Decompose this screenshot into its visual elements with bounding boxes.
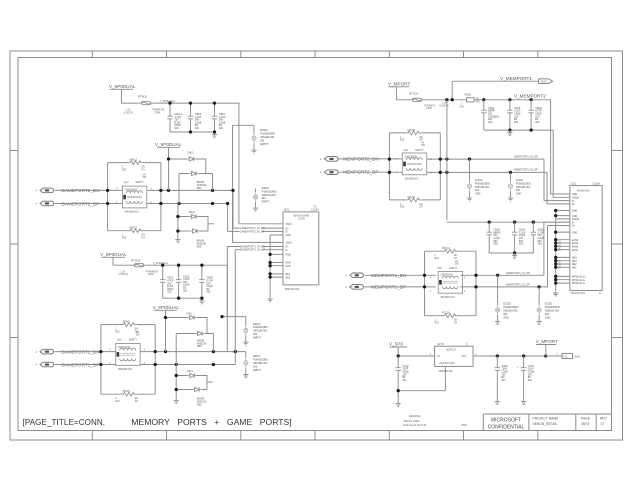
svg-text:40Q: 40Q [493,243,498,246]
wire: DN signal (memport1) [364,222,570,275]
wire: D9V1 anode/cathode routing [176,365,213,399]
svg-text:923: 923 [195,127,200,130]
input port GAMEPORT2_DN [40,188,54,193]
svg-text:6901882-001: 6901882-001 [405,177,420,180]
junction dots connector bus [554,209,557,212]
capacitor C7Q2 [397,356,399,364]
svg-text:CONN: CONN [298,218,305,221]
svg-text:40Q: 40Q [538,243,543,246]
svg-text:MEMPORT2_IN_DP: MEMPORT2_IN_DP [514,168,538,172]
svg-text:GND: GND [572,231,578,234]
junction dots gameport1 [99,350,102,353]
svg-text:LQU: LQU [117,339,122,342]
border zone ticks left [10,151,18,338]
svg-text:V_5P0DUAL: V_5P0DUAL [155,142,182,147]
svg-text:923: 923 [167,291,172,294]
wire: V_MPORT drop through block [446,100,448,220]
ground (cap rail) [212,132,217,138]
svg-text:XENON_RETAIL: XENON_RETAIL [533,422,558,426]
junction dots gameport2 [106,189,109,192]
wire: rail after ferrite [474,99,551,101]
svg-text:R22: R22 [435,257,440,260]
svg-text:923: 923 [183,289,188,292]
wire: stub down [102,257,126,265]
svg-text:EMPTY: EMPTY [136,181,145,184]
ground (C7Q2) [396,401,401,407]
title block: page [581,417,591,427]
wire: DP signal (memport2) [338,172,570,204]
svg-text:MEMORY PORTS + GAME PORTS]: MEMORY PORTS + GAME PORTS] [131,417,291,427]
off-page flag V_MEMPORT1 [539,79,553,84]
svg-text:V_5P0: V_5P0 [389,342,403,347]
off-page reference box [562,353,573,358]
svg-text:EAR: EAR [286,265,291,268]
junction dots on rail [482,98,485,101]
capacitor C9Q2 [176,276,181,285]
svg-text:D8G1: D8G1 [189,211,196,214]
svg-text:N: N [599,292,601,295]
svg-text:GND: GND [286,234,292,237]
svg-text:J8G1: J8G1 [284,209,290,212]
svg-text:R22: R22 [400,139,405,142]
capacitor C8Q8 [528,107,533,116]
svg-text:F8Q01: F8Q01 [464,94,472,97]
svg-text:CM02K8X8: CM02K8X8 [405,155,418,158]
svg-text:MTQ8+N-1+: MTQ8+N-1+ [572,282,586,285]
svg-text:40Q: 40Q [488,121,493,124]
svg-text:RT2Q1: RT2Q1 [409,91,419,95]
svg-text:ADJUST/GND: ADJUST/GND [439,362,455,365]
wire: cap rail to connector [447,221,556,223]
wire: loop rectangle (memport2) [389,133,440,200]
wire: DN signal [55,189,233,191]
svg-text:[PAGE_TITLE=CONN,: [PAGE_TITLE=CONN, [23,418,106,427]
ground (gameport1 caps) [199,298,204,304]
ESD suppressor E09V2 [222,317,246,326]
junction dots [161,264,164,267]
svg-text:D-: D- [286,231,289,234]
title block box lines [483,414,611,431]
svg-text:D9V2: D9V2 [187,312,194,315]
svg-text:MEMPORT1_IN_DN: MEMPORT1_IN_DN [506,271,530,275]
svg-text:GND: GND [545,316,551,319]
border zone ticks bottom [92,431,538,441]
svg-text:V_5P0DUAL: V_5P0DUAL [109,84,136,89]
wire: connector gnd bus [555,211,557,291]
svg-text:V_MEMPORT1: V_MEMPORT1 [500,76,532,81]
svg-text:2.5A: 2.5A [459,105,464,108]
svg-text:6901882-001: 6901882-001 [118,368,133,371]
capacitor C9U1 [160,276,165,285]
svg-text:R22: R22 [435,322,440,325]
svg-text:923: 923 [535,121,540,124]
ESD suppressor E1Q52 [497,275,499,305]
svg-text:45/73: 45/73 [581,422,589,426]
wire: ground bus of connector [269,235,271,297]
junction dots memport1 [423,274,426,277]
wire: D8K2 cathode routing [179,159,213,204]
junction dots bottom rail [189,130,192,133]
svg-text:EMPTY: EMPTY [253,336,262,339]
wire: connector pin stubs group2 [233,242,284,254]
wire: gameport1 DP riser to net label [235,250,241,365]
wire: V_MEMPORT2 drop to connector [551,100,570,194]
svg-text:45/A3: 45/A3 [574,355,581,358]
net label GAMEPORT1_IN_DN [240,244,262,247]
capacitor C8U1A [167,113,172,122]
svg-text:V_MPORT: V_MPORT [536,339,558,344]
wire: V_MPORT stub down [389,87,410,100]
svg-text:2005: 2005 [461,424,467,427]
wire: V_MPORT stub [536,345,556,357]
sheet outer border frame [10,51,623,440]
svg-text:J1Q1: J1Q1 [571,182,577,185]
capacitor C8Q4 [481,107,486,116]
svg-text:0.2/DCR: 0.2/DCR [439,104,448,107]
svg-text:Wed Aug 24 09:27:33: Wed Aug 24 09:27:33 [403,424,427,427]
wire: loop rectangle (gameport1) [101,325,155,395]
svg-text:V_5P0DUAL: V_5P0DUAL [153,305,180,310]
wire: loop rectangle (memport1) [425,251,477,316]
svg-text:45/A7: 45/A7 [541,80,548,83]
ground (memport caps) [507,130,512,136]
input port MEMPORT1_DP [350,285,364,290]
wire: rail drop to game connector power [238,103,240,224]
junction dots top rail [168,101,171,104]
svg-text:0.2/DCR: 0.2/DCR [124,111,133,114]
input port GAMEPORT1_DP [40,362,54,367]
svg-text:XENON_FABA: XENON_FABA [403,420,419,423]
svg-text:923: 923 [206,291,211,294]
svg-text:EAN2+N2: EAN2+N2 [559,240,562,251]
junction dots memport2 [388,157,391,160]
svg-text:D8S: D8S [197,245,202,248]
svg-text:NCP1117: NCP1117 [446,349,457,352]
ground (C1F8) [495,399,500,405]
svg-text:LQU: LQU [123,181,128,184]
wire: D8G1 anode/cathode routing [178,204,214,238]
svg-text:R22: R22 [122,168,127,171]
wire: connector stub pins [556,211,570,284]
title block: drawing info [403,415,467,427]
svg-text:1"Q: 1"Q [563,355,567,358]
capacitor C8Q2 (mid3) [531,229,536,238]
wire: cap top connections [170,103,215,113]
wire: stub down from V_5P0DUAL [157,147,180,159]
wire: DP signal (gameport1) [55,364,236,366]
title block: microsoft confidential [488,417,525,430]
wire: V rail to ferrite [396,99,466,101]
capacitor C5Q8 (mid1) [487,229,492,238]
svg-text:D-: D- [286,249,289,252]
svg-text:EMPTY: EMPTY [416,149,425,152]
svg-text:DRAWING: DRAWING [409,415,421,418]
capacitor C4V8 [507,107,512,116]
ESD suppressor E09V1 [244,358,248,367]
svg-text:U1T3: U1T3 [437,342,444,346]
wire: cap leads + bottom rail [484,100,551,130]
svg-text:120R: 120R [148,273,154,276]
svg-text:R22: R22 [115,330,120,333]
svg-text:GAMEPORT1_IN_DP: GAMEPORT1_IN_DP [240,248,265,252]
svg-text:LQU: LQU [437,267,442,270]
svg-text:EMPTY: EMPTY [260,143,269,146]
wire: V_5P0DUAL stub down [110,89,134,103]
svg-text:923: 923 [528,379,533,382]
ESD suppressor E1Q51 [538,287,540,305]
ESD suppressor E09G2 [252,134,256,143]
svg-text:6901882-001: 6901882-001 [441,296,456,299]
svg-text:RE2: RE2 [286,276,291,279]
svg-text:EMPTY: EMPTY [449,267,458,270]
svg-text:6950096-001: 6950096-001 [439,370,454,373]
svg-text:D8S: D8S [197,345,202,348]
wire: D9V2 cathode routing [176,318,213,365]
ground (connector) [268,297,273,303]
svg-text:V5U8: V5U8 [286,223,293,226]
wire: C7Q2 to gnd + adj return [398,366,445,401]
wire: DP drop to net label [228,204,241,232]
wire: DP signal [55,203,228,205]
svg-text:C1Q64: C1Q64 [311,209,319,212]
wire: gameport1 DN riser to net label [227,247,241,352]
svg-text:CM02K9X8: CM02K9X8 [440,274,453,277]
svg-text:923: 923 [514,121,519,124]
svg-text:OUT: OUT [462,355,468,358]
svg-text:GAMEPORT2_IN_DN: GAMEPORT2_IN_DN [240,226,265,230]
wire: +5V rail (gameport1) [113,265,227,316]
wire: cap bottom rail [170,122,215,132]
svg-text:GND: GND [286,254,292,257]
svg-text:PROJECT NAME: PROJECT NAME [533,417,560,421]
svg-text:GND: GND [572,210,578,213]
ESD suppressor E09G1 [253,192,257,201]
input port GAMEPORT1_DN [40,349,54,354]
svg-text:923: 923 [219,127,224,130]
svg-text:GND: GND [475,193,481,196]
net label GAMEPORT2_IN_DN [239,226,261,229]
ground (D9V1) [174,398,179,404]
wire: connector pin stubs ear/ret [270,263,283,278]
svg-text:EMPTY: EMPTY [129,339,138,342]
svg-text:17: 17 [601,422,605,426]
border zone ticks top [92,51,538,58]
svg-text:T29R: T29R [154,111,160,114]
svg-text:D8S: D8S [197,403,202,406]
svg-text:CM01K9X8: CM01K9X8 [118,346,131,349]
wire: DN signal (gameport1) [55,352,246,358]
svg-text:V5U8: V5U8 [286,242,293,245]
wire: regulator output rail [473,355,546,357]
svg-text:120R: 120R [426,107,432,110]
input port GAMEPORT2_DP [40,201,54,206]
title block: project name [533,417,560,427]
svg-text:6950U04-003: 6950U04-003 [285,288,300,291]
sheet inner border frame [18,58,612,431]
svg-text:923: 923 [175,127,180,130]
ground (D8G1) [175,237,180,243]
capacitor C8U2 [188,113,193,122]
svg-text:903: 903 [476,100,481,103]
ground (mid caps) [512,253,517,259]
svg-text:EAN1: EAN1 [572,249,579,252]
svg-text:IN: IN [437,355,440,358]
net label GAMEPORT2_IN_DP [239,230,261,233]
svg-text:GND: GND [503,316,509,319]
svg-text:V_MEMPORT2: V_MEMPORT2 [514,93,546,98]
capacitor C9Q4 [199,276,204,285]
wire: second power drop with E09G2 tap [233,125,255,242]
svg-text:R22: R22 [122,237,127,240]
ground (mu connector) [553,290,558,296]
svg-text:XENON MU: XENON MU [577,189,590,192]
wire: riser to V_MEMPORT1 flag [452,81,538,100]
svg-text:REV: REV [600,417,608,421]
wire: DN drop to net label [233,190,241,228]
wire: loop rectangle [108,163,161,231]
ESD suppressor E7Q02 [469,159,471,181]
svg-text:EMPTY: EMPTY [262,201,271,204]
svg-text:GAMEPORT2_IN_DP: GAMEPORT2_IN_DP [240,230,265,234]
svg-text:NE3+N2: NE3+N2 [559,259,562,269]
svg-text:PAGE: PAGE [581,417,591,421]
svg-text:RT9O2: RT9O2 [131,259,141,263]
ESD suppressor E7Q01 [510,172,512,181]
svg-text:0.2/DCR: 0.2/DCR [118,273,127,276]
capacitor C8Q4 (mid2) [512,229,517,238]
svg-text:LQU: LQU [403,149,408,152]
svg-text:MEMPORT2_IN_DN: MEMPORT2_IN_DN [514,154,538,158]
svg-text:MICROSOFT: MICROSOFT [491,417,521,423]
svg-text:V_5P0DUAL2: V_5P0DUAL2 [160,100,176,103]
svg-text:MEMPORT1_IN_DP: MEMPORT1_IN_DP [506,283,530,287]
svg-text:V_5P0DUAL2: V_5P0DUAL2 [153,262,169,265]
wire: to off-page box [546,355,562,357]
svg-text:40Q: 40Q [519,243,524,246]
wire: DP signal (memport1) [364,226,570,287]
wire: DN signal (memport2) [338,159,570,201]
svg-text:CONFIDENTIAL: CONFIDENTIAL [488,425,525,431]
wire: connector pin stubs group1 [239,224,283,235]
svg-text:NE1: NE1 [572,267,577,270]
svg-text:V_5P0DUAL: V_5P0DUAL [100,252,127,257]
ground (C1F4) [521,399,526,405]
svg-text:6950U04-001: 6950U04-001 [571,292,586,295]
net label GAMEPORT1_IN_DP [240,248,262,251]
svg-text:R22: R22 [400,206,405,209]
title block: rev [600,417,608,427]
svg-text:R22: R22 [115,400,120,403]
wire: +5V rail down to diodes [169,159,187,190]
wire: +5V rail down to diodes (gameport1) [166,318,187,352]
svg-text:RT8O1: RT8O1 [138,95,148,99]
svg-text:923: 923 [402,379,407,382]
svg-text:D8S: D8S [197,187,202,190]
svg-text:V_MPORT: V_MPORT [388,82,410,87]
capacitor C1F4 (polarized) [523,356,525,364]
svg-text:D8K2: D8K2 [188,151,195,154]
input port MEMPORT2_DP [325,170,339,175]
capacitor C1F8 [496,356,498,364]
wire: +5V rail top [122,102,240,104]
svg-text:EMPTY: EMPTY [253,369,262,372]
svg-text:GND: GND [516,193,522,196]
svg-text:923: 923 [502,379,507,382]
svg-text:6901882-001: 6901882-001 [125,211,140,214]
wire: stub down from V_5P0DUAL [154,310,177,317]
wire: cap top leads [163,265,202,276]
wire: V_5P0 stub + rail [390,347,435,356]
wire: gnd drop to connector [551,130,570,197]
input port MEMPORT1_DN [350,273,364,278]
input port MEMPORT2_DN [325,157,339,162]
wire: mid cap leads + gnd rail [489,222,533,253]
capacitor C8U3 [212,113,217,122]
border zone ticks right [612,151,623,338]
svg-text:C1Q66: C1Q66 [593,182,601,185]
svg-text:D9V1: D9V1 [187,370,194,373]
svg-text:CM01K8X8: CM01K8X8 [125,188,138,191]
wire: cap bottom rail [163,286,202,299]
